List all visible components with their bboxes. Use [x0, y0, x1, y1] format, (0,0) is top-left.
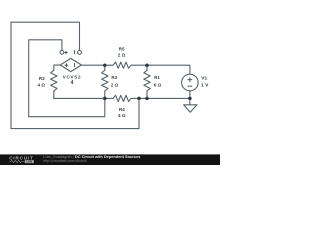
svg-text:V1: V1 — [201, 75, 207, 81]
svg-text:R4: R4 — [119, 107, 125, 112]
ground triangle — [184, 105, 197, 112]
VCVS2 control terminal circle + — [60, 50, 64, 54]
wire inner sense loop (VCVS + terminal to node A) — [29, 40, 105, 117]
resistor R3 body — [51, 70, 57, 91]
V1 minus mark — [188, 85, 192, 87]
svg-text:R3: R3 — [39, 76, 45, 81]
svg-text:4 Ω: 4 Ω — [118, 113, 126, 118]
svg-text:4 Ω: 4 Ω — [37, 83, 45, 88]
junction node top right (R5/R1/V1) — [145, 63, 149, 67]
resistor R4 body — [113, 95, 131, 101]
wire diamond left vertex to R3 corner — [54, 65, 60, 70]
wire V1 bottom lead — [189, 91, 191, 99]
svg-text:VCVS2: VCVS2 — [63, 75, 82, 80]
logo resistor squiggle — [9, 160, 24, 162]
wire top rail: diamond right vertex to R5 — [81, 64, 113, 66]
VCVS2 control terminal circle - — [78, 51, 82, 55]
junction node A bottom (R2/R4/sense) — [103, 97, 107, 101]
wire R2 top lead — [104, 65, 106, 70]
wire bottom rail — [54, 97, 113, 99]
logo LAB box — [25, 160, 34, 163]
svg-text:R5: R5 — [119, 46, 125, 51]
V1 plus mark — [188, 78, 192, 82]
junction node A top (R2/R5/diamond) — [103, 63, 107, 67]
wire R2 bottom lead — [104, 91, 106, 98]
control minus mark — [73, 51, 75, 54]
ground stem — [189, 98, 191, 104]
svg-text:1 V: 1 V — [201, 83, 209, 89]
junction ground node — [188, 97, 192, 101]
resistor R5 body — [113, 62, 131, 68]
control plus mark — [65, 51, 68, 54]
svg-text:2 Ω: 2 Ω — [111, 83, 119, 88]
svg-text:6 Ω: 6 Ω — [154, 83, 162, 88]
junction node B (R4/sense loop) — [137, 97, 141, 101]
resistor R1 body — [144, 70, 150, 91]
VCVS2 plus mark inside diamond — [65, 64, 68, 67]
resistor R2 body — [102, 70, 108, 91]
svg-text:http://circuitlab.com/c6vkr5/: http://circuitlab.com/c6vkr5/ — [43, 159, 87, 163]
svg-text:LAB: LAB — [27, 160, 33, 164]
wire R3 bottom lead — [53, 91, 55, 98]
svg-text:R1: R1 — [154, 75, 160, 80]
wire bottom rail right — [131, 97, 190, 99]
op VCVS2 diamond body — [60, 58, 81, 71]
junction R1 bottom — [145, 97, 149, 101]
VCVS2 minus mark inside diamond — [73, 64, 75, 67]
wire R1 top lead — [146, 65, 148, 70]
svg-text:2 Ω: 2 Ω — [118, 53, 126, 58]
wire top rail: R5 to V1 corner — [131, 65, 190, 74]
svg-text:R2: R2 — [111, 75, 117, 80]
footer bar — [0, 154, 220, 165]
wire outer sense loop (VCVS - terminal to node B) — [11, 22, 139, 128]
wire R1 bottom lead — [146, 91, 148, 98]
svg-text:4: 4 — [71, 80, 74, 86]
voltage source V1 circle — [182, 74, 199, 91]
